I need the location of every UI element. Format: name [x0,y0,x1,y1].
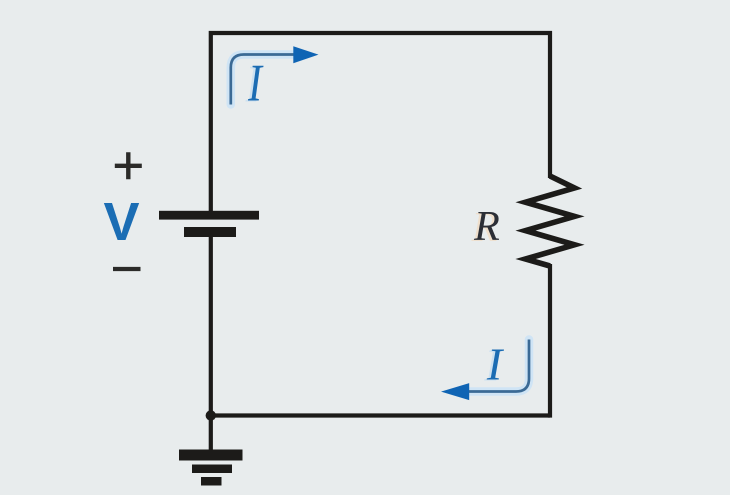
top current arrow line [231,55,294,105]
wire resistor bottom to bottom-right corner [548,264,552,418]
svg-text:I: I [486,339,505,390]
wire top and sides (left wire down to battery, top wire, right wire down to resistor) [211,33,550,211]
resistor R zigzag [526,176,575,266]
bottom current arrow line [469,340,529,392]
svg-text:V: V [103,192,139,252]
svg-text:I: I [247,55,264,113]
wire battery bottom to bottom-left node [209,237,213,416]
battery V (voltage source) long plate [159,211,259,220]
junction node dot [206,410,216,420]
top current arrowhead [293,46,318,63]
minus sign [113,267,141,271]
ground lead wire [209,416,213,451]
top current arrow halo [231,55,293,105]
svg-text:R: R [473,204,500,250]
bottom current arrow halo [470,340,530,392]
wire bottom [209,413,550,417]
ground symbol bars [179,450,243,461]
plus sign [115,152,142,179]
bottom current arrowhead [441,383,469,400]
battery V short plate [184,227,236,237]
